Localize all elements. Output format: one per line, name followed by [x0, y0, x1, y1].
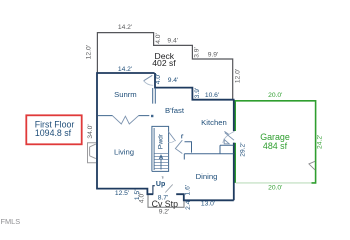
svg-text:Dining: Dining [196, 172, 218, 181]
svg-text:1.6': 1.6' [184, 185, 191, 196]
svg-text:20.0': 20.0' [268, 92, 282, 99]
svg-text:2.4': 2.4' [185, 199, 192, 210]
svg-text:9.4': 9.4' [168, 77, 179, 84]
svg-text:Sunrm: Sunrm [114, 90, 137, 99]
svg-text:12.0': 12.0' [235, 69, 242, 83]
svg-text:24.2': 24.2' [316, 135, 323, 149]
svg-text:29.2': 29.2' [240, 142, 247, 156]
svg-text:20.0': 20.0' [268, 184, 282, 191]
svg-text:4.0': 4.0' [155, 33, 162, 44]
svg-text:B'fast: B'fast [165, 106, 185, 115]
svg-text:12.5': 12.5' [115, 190, 129, 197]
svg-text:Living: Living [114, 147, 134, 156]
svg-text:9.9': 9.9' [208, 52, 219, 59]
svg-text:Kitchen: Kitchen [201, 118, 227, 127]
svg-text:3.9': 3.9' [194, 47, 201, 58]
svg-text:FMLS: FMLS [1, 217, 21, 226]
svg-text:1.5': 1.5' [134, 190, 141, 201]
svg-text:Up: Up [156, 181, 165, 188]
svg-text:Pwdr: Pwdr [158, 133, 165, 149]
svg-text:34.0': 34.0' [87, 124, 94, 138]
svg-text:14.2': 14.2' [118, 66, 132, 73]
svg-text:10.6': 10.6' [205, 92, 219, 99]
svg-text:4.0': 4.0' [155, 74, 162, 85]
svg-text:484 sf: 484 sf [263, 141, 288, 151]
svg-text:402 sf: 402 sf [152, 58, 176, 68]
svg-text:14.2': 14.2' [118, 24, 132, 31]
svg-text:3.9': 3.9' [194, 88, 201, 99]
svg-text:9.2': 9.2' [159, 209, 170, 216]
svg-text:12.0': 12.0' [85, 45, 92, 59]
svg-text:8.7': 8.7' [158, 195, 169, 202]
svg-text:1094.8 sf: 1094.8 sf [35, 128, 72, 138]
svg-text:13.0': 13.0' [201, 201, 215, 208]
svg-text:9.4': 9.4' [167, 38, 178, 45]
